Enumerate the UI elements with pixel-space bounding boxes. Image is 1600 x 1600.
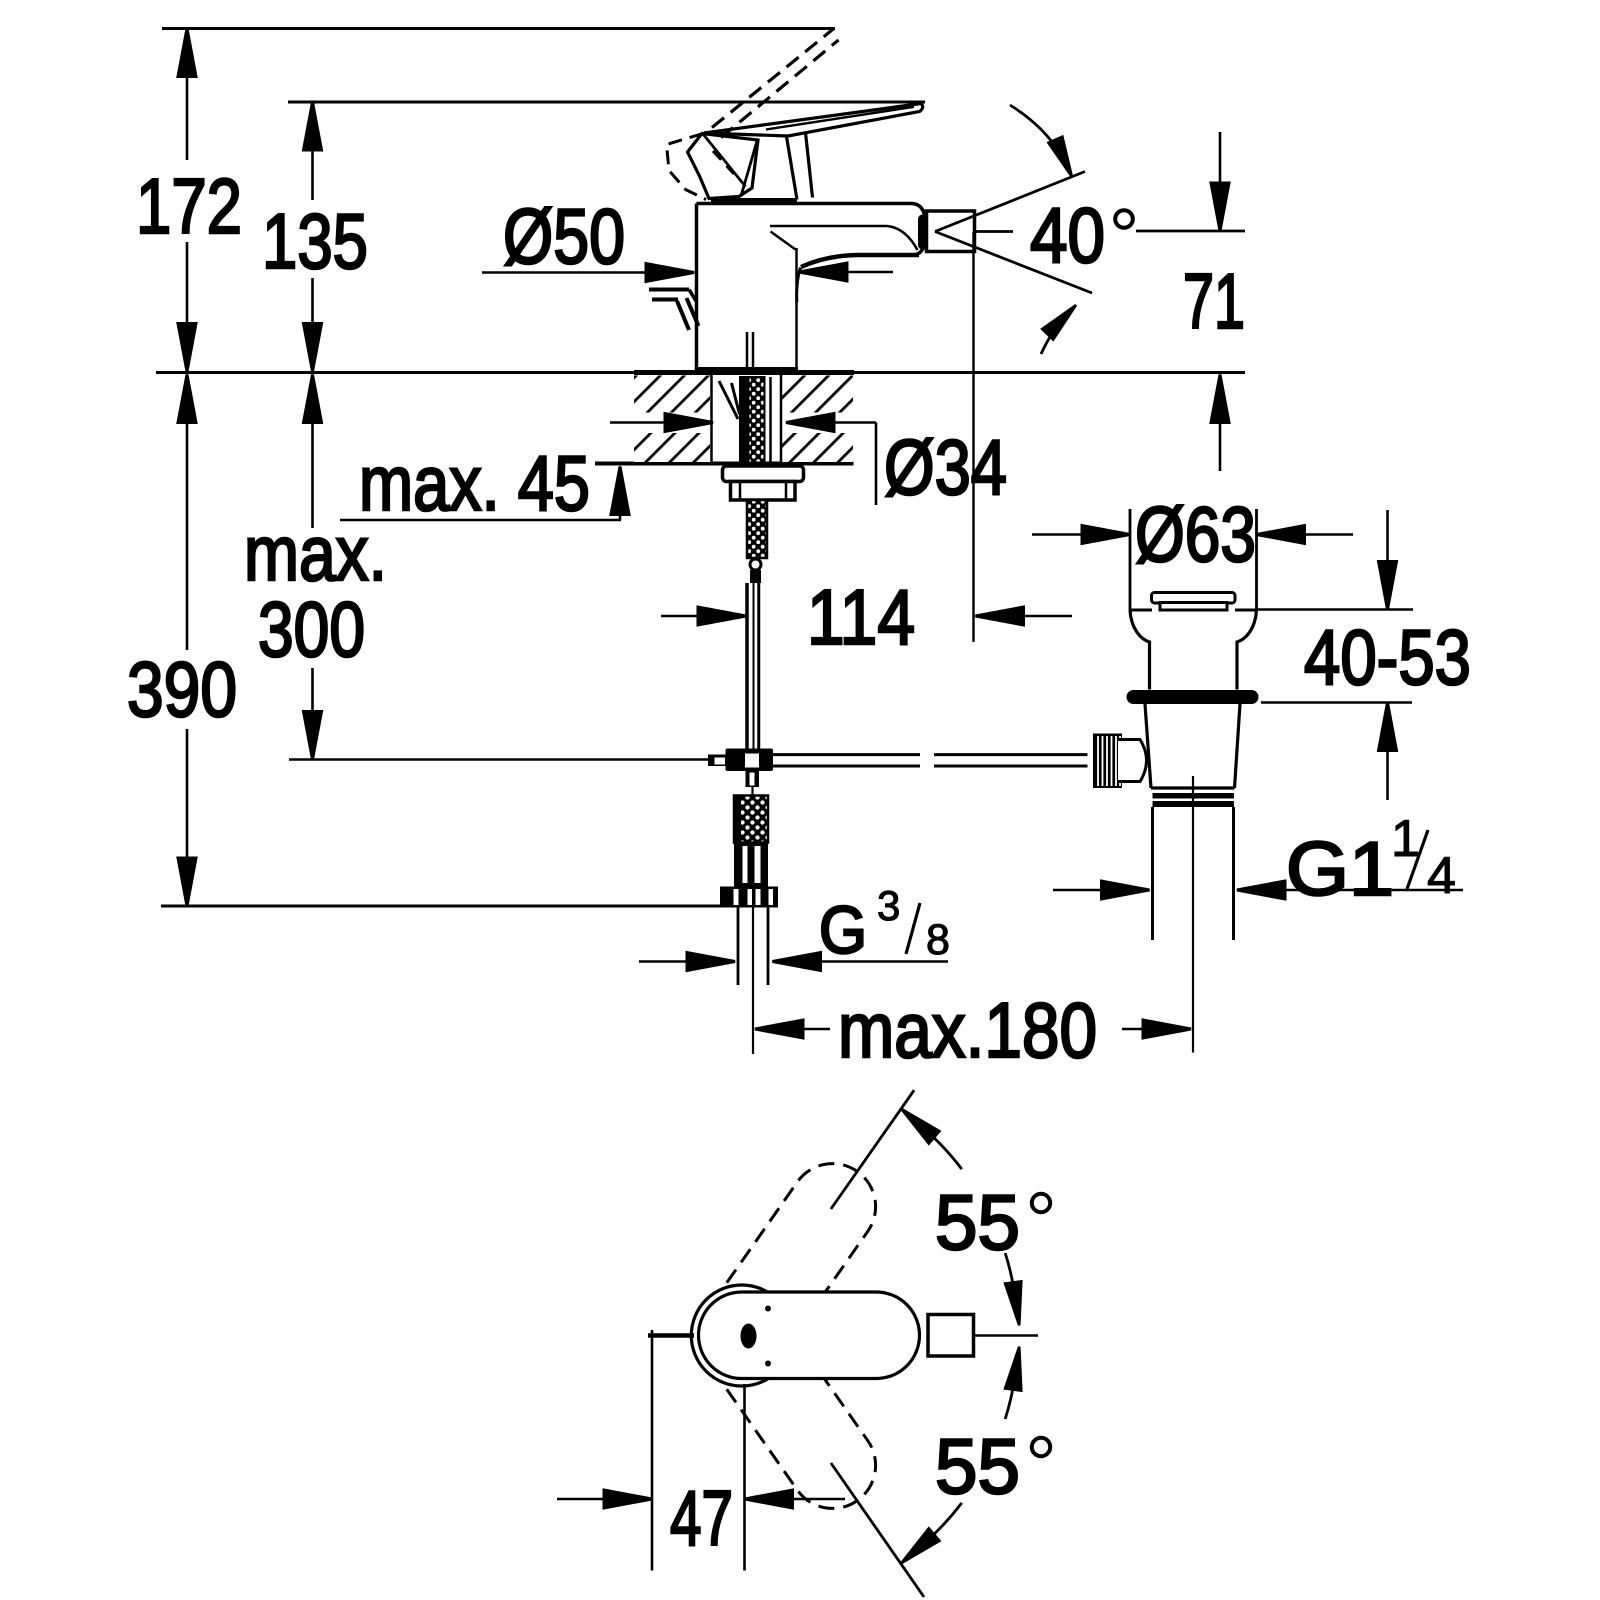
dimension 390 — [127, 375, 237, 907]
drain centerline — [1192, 776, 1194, 1053]
svg-text:Ø63: Ø63 — [1135, 490, 1256, 578]
svg-text:4: 4 — [1427, 847, 1456, 905]
dimension 114 — [661, 573, 1072, 661]
supply hose braided section — [734, 796, 768, 843]
dimension 40 degrees spout swivel — [935, 105, 1245, 354]
dimension max.180 — [755, 986, 1191, 1074]
dimension 55deg lower — [831, 1346, 1050, 1597]
dimension 172 — [136, 29, 242, 372]
hose end fitting — [734, 843, 768, 887]
drain adjusting knob (knurled) — [1093, 734, 1122, 789]
plan view: faucet body capsule — [699, 1292, 920, 1379]
knob connector piece — [1118, 740, 1147, 782]
svg-text:8: 8 — [926, 916, 950, 964]
spout outlet axis extension line — [972, 232, 974, 642]
dimension 40-53 — [1257, 510, 1472, 800]
spreader cone in hole — [719, 381, 740, 419]
dimension 135 — [262, 102, 368, 372]
svg-text:40: 40 — [1030, 191, 1105, 279]
pop-up linkage junction — [708, 749, 773, 788]
deck bottom line — [595, 462, 854, 466]
plan view: dashed handle position upper 55deg — [699, 1164, 876, 1379]
svg-text:55: 55 — [935, 1178, 1020, 1266]
mounting hole edges — [712, 374, 782, 463]
washer under deck — [723, 466, 804, 482]
svg-text:135: 135 — [262, 197, 368, 285]
svg-text:max. 45: max. 45 — [359, 439, 590, 527]
svg-text:G: G — [819, 893, 867, 968]
dimension diameter 63 — [1032, 490, 1353, 578]
plan view: pop-up knob line — [648, 1333, 694, 1338]
ball end of pop-up rod — [750, 559, 761, 570]
stud tip — [750, 570, 761, 583]
horizontal pop-up rod to drain valve — [773, 755, 1088, 766]
pop-up knob at rear of body — [649, 290, 699, 331]
dimension diameter 63 extension lines — [1130, 509, 1257, 610]
svg-text:390: 390 — [127, 645, 237, 733]
svg-text:Ø50: Ø50 — [503, 192, 625, 280]
drain tailpipe — [1153, 807, 1234, 940]
svg-text:55: 55 — [935, 1422, 1020, 1510]
dimension max.300 — [244, 375, 387, 760]
svg-text:114: 114 — [807, 573, 915, 661]
supply pipe tails — [738, 908, 768, 986]
dimension G1 1/4 — [1053, 810, 1463, 912]
svg-text:47: 47 — [670, 1474, 733, 1562]
lever handle raised 40deg (dashed) — [667, 29, 839, 200]
plan view: aerator square — [928, 1315, 974, 1357]
svg-text:G1: G1 — [1286, 827, 1394, 912]
dimension G 3/8 — [639, 882, 950, 971]
G 3/8 connector nut — [720, 887, 778, 908]
dimension max. 45 with leader arrow to deck underside — [340, 439, 629, 527]
svg-text:172: 172 — [136, 162, 242, 250]
aerator end of spout — [918, 215, 927, 250]
threaded stud below nut — [747, 500, 767, 558]
dimension 47 — [557, 1330, 845, 1571]
top reference line (overall height 172) — [162, 27, 835, 30]
aerator tip box — [927, 211, 975, 252]
spout underside — [770, 226, 918, 250]
svg-text:3: 3 — [877, 882, 900, 929]
deck top line — [156, 371, 1245, 374]
plan view: escutcheon circle — [691, 1285, 792, 1386]
faucet body — [697, 204, 927, 372]
pop-up rod vertical — [745, 583, 749, 749]
deck hatch right block — [782, 376, 853, 413]
plan view: dashed handle position lower 55deg — [699, 1293, 876, 1508]
bottom reference line (390) — [161, 905, 722, 908]
dimension diameter 50 — [482, 192, 893, 282]
plan view: screw dots — [765, 1306, 771, 1312]
svg-text:40-53: 40-53 — [1304, 613, 1471, 701]
pop-up rod inside body — [747, 332, 753, 371]
svg-text:71: 71 — [1183, 257, 1245, 345]
svg-text:Ø34: Ø34 — [884, 423, 1007, 511]
mounting nut — [731, 482, 796, 501]
dimension 71 — [1183, 132, 1245, 471]
dimension diameter 34 — [610, 414, 1007, 512]
drain valve lower body — [1145, 704, 1240, 788]
drain push button — [1152, 593, 1236, 604]
plan view: spout centerline — [974, 1334, 1039, 1336]
lever handle (solid) — [688, 104, 923, 201]
deck hatch left block — [634, 376, 853, 463]
drain flange gasket — [1127, 690, 1259, 704]
svg-text:1: 1 — [1391, 810, 1420, 868]
max.300 reference line / horizontal rod left — [289, 758, 708, 761]
drain valve upper body (trumpet) — [1130, 609, 1257, 612]
dimension 55deg upper — [831, 1090, 1050, 1326]
threaded shank in hole — [749, 377, 765, 463]
handle top reference line (135) — [288, 101, 925, 104]
svg-text:max.180: max.180 — [838, 986, 1097, 1074]
drain coupling rings — [1153, 793, 1235, 799]
svg-text:300: 300 — [258, 585, 365, 673]
plan view: cartridge hole — [741, 1324, 757, 1349]
